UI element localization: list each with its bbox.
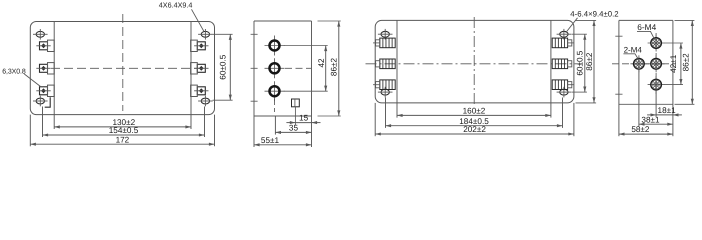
svg-text:60±0.5: 60±0.5 [218, 54, 227, 79]
svg-text:18±1: 18±1 [658, 106, 677, 115]
svg-text:86±2: 86±2 [682, 53, 691, 72]
svg-text:42: 42 [317, 58, 326, 68]
svg-text:15: 15 [299, 114, 309, 123]
svg-text:35: 35 [289, 124, 299, 133]
svg-text:202±2: 202±2 [463, 125, 486, 134]
svg-text:58±2: 58±2 [631, 125, 650, 134]
svg-text:42±1: 42±1 [669, 54, 678, 73]
svg-text:172: 172 [116, 135, 130, 144]
svg-text:6-M4: 6-M4 [637, 22, 656, 32]
svg-text:4X6.4X9.4: 4X6.4X9.4 [159, 0, 193, 9]
svg-text:86±2: 86±2 [329, 57, 338, 76]
svg-text:60±0.5: 60±0.5 [576, 50, 585, 75]
svg-text:86±2: 86±2 [585, 52, 594, 71]
svg-text:154±0.5: 154±0.5 [109, 126, 139, 135]
svg-text:38±1: 38±1 [641, 115, 660, 124]
svg-text:55±1: 55±1 [261, 136, 280, 145]
svg-text:6,3X0.8: 6,3X0.8 [2, 68, 26, 75]
svg-text:160±2: 160±2 [463, 107, 486, 116]
svg-text:4-6.4×9.4±0.2: 4-6.4×9.4±0.2 [570, 10, 618, 19]
